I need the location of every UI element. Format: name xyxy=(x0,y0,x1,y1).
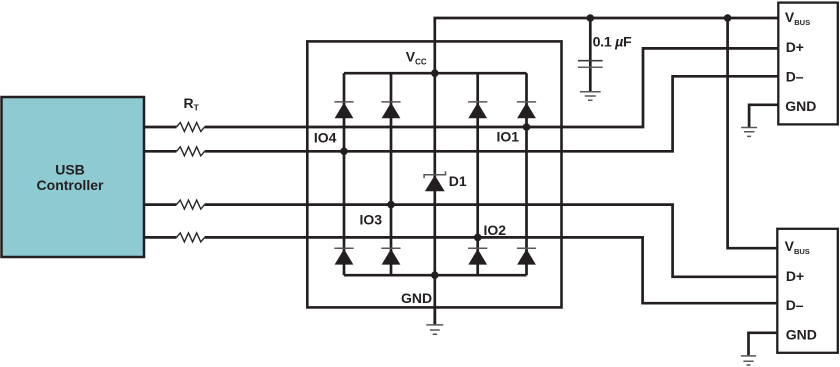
resistor RT2 xyxy=(177,147,205,156)
USB controller block xyxy=(2,97,145,257)
USB connector (top) xyxy=(778,3,838,125)
diode branch wire 1 xyxy=(343,73,346,275)
svg-text:GND: GND xyxy=(786,327,817,343)
ground symbol (bottom connector) xyxy=(741,356,756,365)
junction node IO1 xyxy=(523,123,531,131)
resistor RT3 xyxy=(177,200,205,209)
ESD diode top 2 xyxy=(381,102,400,118)
svg-text:GND: GND xyxy=(785,98,816,114)
ESD diode bottom 4 xyxy=(517,248,536,264)
Vcc inner rail xyxy=(344,72,527,75)
ESD diode top 1 xyxy=(334,102,353,118)
svg-text:D+: D+ xyxy=(786,268,804,284)
svg-text:0.1 µF: 0.1 µF xyxy=(593,35,632,51)
wire VBUS to bottom connector xyxy=(728,18,778,248)
svg-text:Controller: Controller xyxy=(37,177,104,193)
ESD diode top 4 xyxy=(517,102,536,118)
diode branch wire 3 xyxy=(476,73,479,275)
ESD diode bottom 1 xyxy=(334,248,353,264)
diode branch wire 2 xyxy=(390,73,393,275)
resistor RT1 xyxy=(177,123,205,132)
diode branch wire 4 xyxy=(525,73,528,275)
svg-text:D+: D+ xyxy=(786,39,804,55)
junction node IO3 xyxy=(387,201,395,209)
wire GND stub (top connector) xyxy=(749,105,778,127)
wire GND stub (bottom connector) xyxy=(749,333,778,356)
capacitor C1 xyxy=(578,18,603,92)
zener diode D1 xyxy=(424,171,445,191)
junction node IO4 xyxy=(340,148,348,156)
svg-text:IO2: IO2 xyxy=(484,222,507,238)
junction node Vcc rail xyxy=(431,69,439,77)
resistor RT4 xyxy=(177,233,205,242)
svg-text:D1: D1 xyxy=(449,173,467,189)
svg-text:GND: GND xyxy=(401,290,432,306)
svg-text:IO1: IO1 xyxy=(497,129,520,145)
USB connector (bottom) xyxy=(777,229,838,353)
ground symbol (top connector) xyxy=(741,128,757,137)
svg-text:USB: USB xyxy=(55,162,85,178)
ground symbol (device) xyxy=(426,325,443,334)
junction node GND rail xyxy=(431,271,439,279)
junction node capacitor tap xyxy=(587,14,595,22)
svg-text:IO3: IO3 xyxy=(360,211,383,227)
ESD diode bottom 3 xyxy=(468,248,487,264)
wire net bottom D+ line xyxy=(144,205,777,277)
svg-text:D–: D– xyxy=(786,297,804,313)
Vcc center wire to VBUS rail xyxy=(435,18,778,325)
svg-text:IO4: IO4 xyxy=(314,129,337,145)
wire net bottom D- line xyxy=(144,237,777,303)
ESD diode bottom 2 xyxy=(381,248,400,264)
GND inner rail xyxy=(344,274,527,277)
ESD diode top 3 xyxy=(468,102,487,118)
TVS device box xyxy=(307,41,561,307)
ground symbol (capacitor) xyxy=(580,92,601,101)
junction node IO2 xyxy=(474,234,482,242)
junction node VBUS branch xyxy=(724,14,732,22)
wire net IO4 / top D+ line xyxy=(144,48,778,127)
device ground wire xyxy=(433,307,436,324)
svg-text:D–: D– xyxy=(786,68,804,84)
wire net top D- line xyxy=(144,76,778,151)
